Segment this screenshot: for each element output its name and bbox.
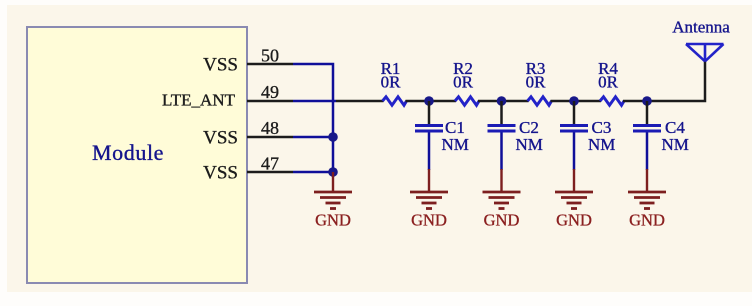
svg-text:NM: NM	[516, 135, 543, 154]
resistor R3	[526, 59, 552, 105]
wire pin 48 to rail	[293, 136, 333, 139]
antenna ANT1	[672, 17, 730, 61]
junction node4	[642, 96, 652, 106]
capacitor C2	[488, 101, 543, 154]
svg-text:VSS: VSS	[203, 127, 238, 148]
wire C3 to ground	[573, 133, 576, 171]
module U1 body	[27, 27, 247, 283]
svg-text:47: 47	[261, 153, 279, 173]
wire C4 to ground	[646, 133, 649, 171]
resistor R1	[381, 59, 407, 105]
ground C2	[483, 169, 521, 230]
junction node1	[424, 96, 434, 106]
svg-text:LTE_ANT: LTE_ANT	[162, 90, 236, 109]
svg-text:VSS: VSS	[203, 54, 238, 75]
wire pin 47 to rail	[293, 171, 333, 174]
wire VSS rail from pin 50 down past pins 48,47	[293, 64, 333, 172]
junction rail/pin48	[328, 132, 338, 142]
svg-text:49: 49	[261, 82, 279, 102]
svg-text:0R: 0R	[381, 73, 402, 92]
resistor R2	[453, 59, 479, 105]
ground module rail	[314, 172, 352, 230]
wire to R1 left	[336, 100, 384, 103]
wire R1 to node1	[406, 100, 457, 103]
ground C4	[628, 169, 666, 230]
junction node3	[569, 96, 579, 106]
wire LTE_ANT from pin 49	[293, 100, 336, 103]
svg-text:0R: 0R	[598, 73, 619, 92]
svg-text:GND: GND	[556, 211, 592, 230]
svg-text:GND: GND	[411, 211, 447, 230]
wire R4 to antenna corner	[623, 61, 705, 101]
wire R3 to node3	[551, 100, 602, 103]
capacitor C1	[415, 101, 469, 154]
junction node2	[497, 96, 507, 106]
wire C2 to ground	[500, 133, 503, 171]
svg-text:0R: 0R	[453, 73, 474, 92]
pin 50 VSS	[203, 45, 293, 75]
capacitor C3	[560, 101, 615, 154]
pin 47 VSS	[203, 153, 293, 183]
svg-text:NM: NM	[662, 135, 689, 154]
svg-text:GND: GND	[484, 211, 520, 230]
svg-text:0R: 0R	[526, 73, 547, 92]
wire C1 to ground	[428, 133, 431, 171]
capacitor C4	[633, 101, 689, 154]
ground C1	[410, 169, 448, 230]
svg-text:GND: GND	[629, 211, 665, 230]
resistor R4	[598, 59, 624, 105]
ground C3	[555, 169, 593, 230]
svg-text:NM: NM	[442, 135, 469, 154]
wire R2 to node2	[478, 100, 529, 103]
svg-text:NM: NM	[588, 135, 615, 154]
junction rail/pin47	[328, 167, 338, 177]
svg-text:VSS: VSS	[203, 162, 238, 183]
svg-text:Antenna: Antenna	[672, 17, 730, 36]
pin 49 LTE_ANT	[162, 82, 293, 109]
svg-text:GND: GND	[315, 211, 351, 230]
svg-text:Module: Module	[92, 140, 164, 165]
svg-text:50: 50	[261, 45, 279, 65]
svg-text:48: 48	[261, 118, 279, 138]
pin 48 VSS	[203, 118, 293, 148]
